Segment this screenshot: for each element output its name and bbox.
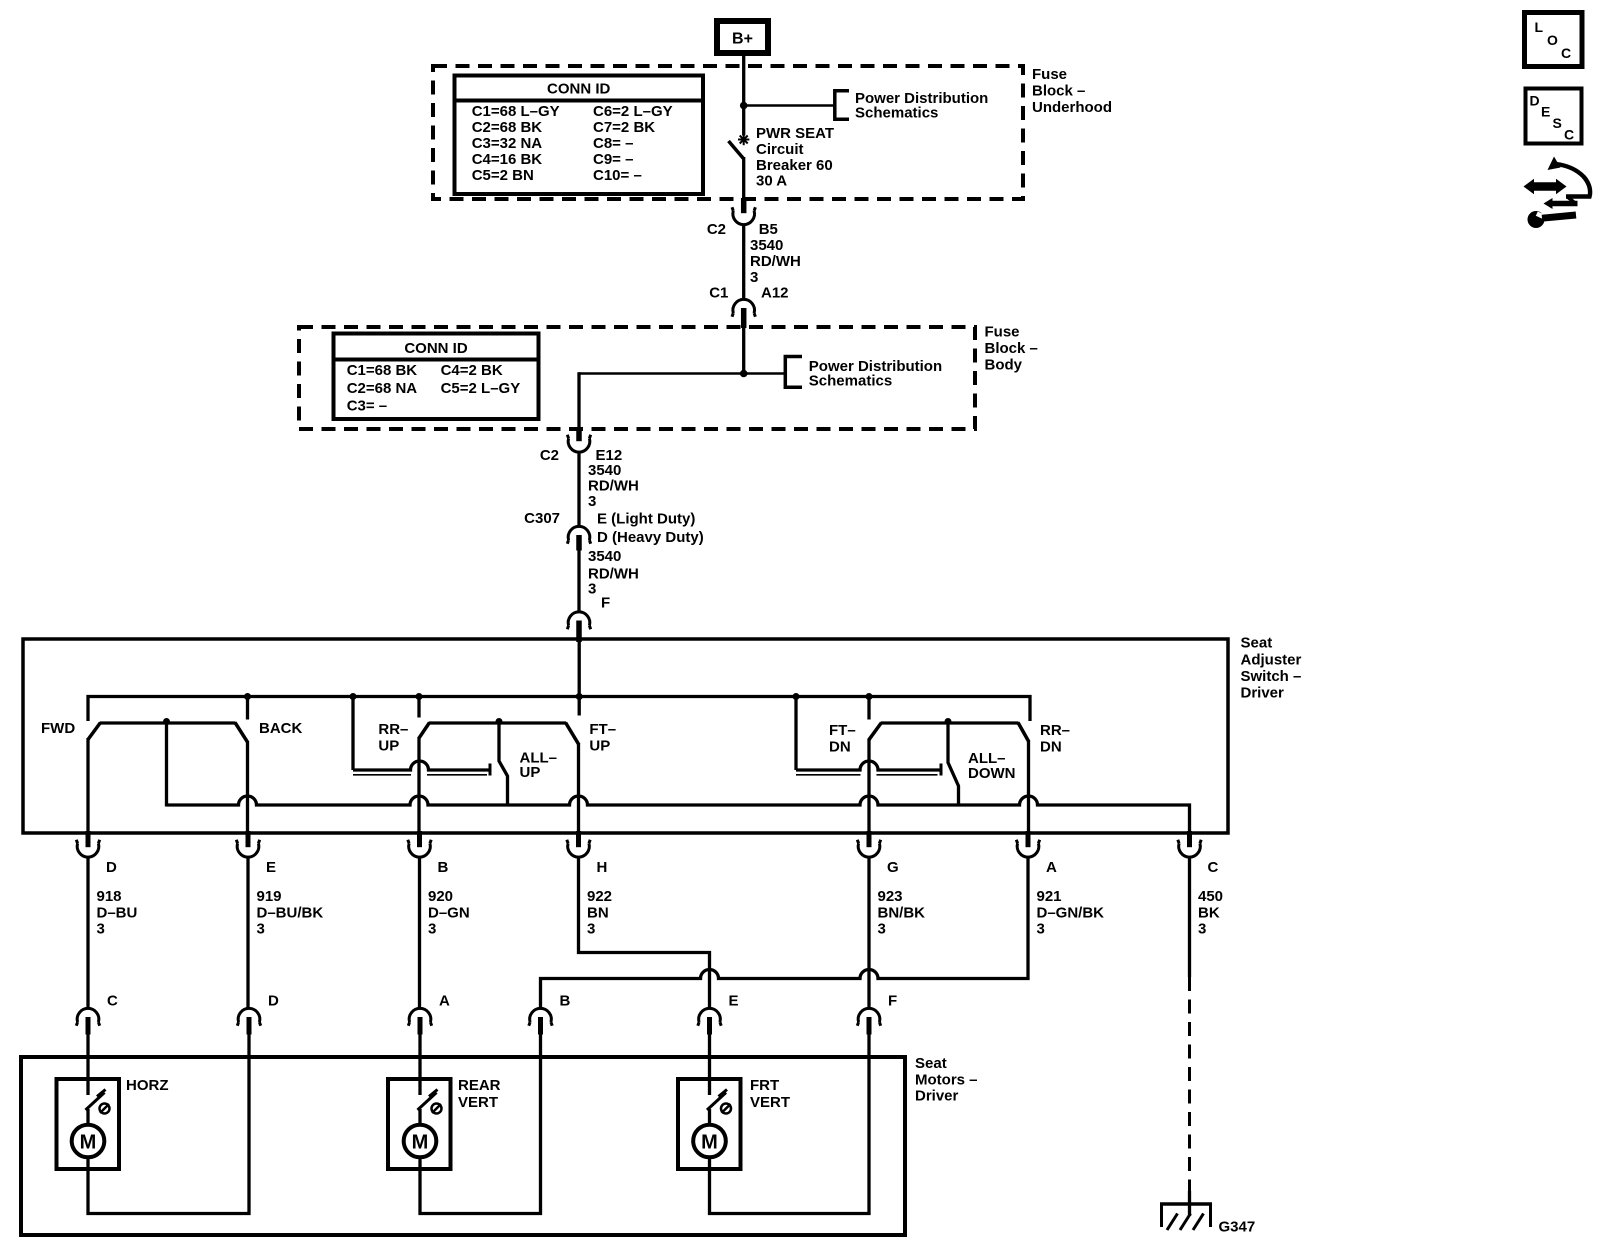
svg-text:3: 3	[257, 921, 265, 938]
svg-text:C5=2 L–GY: C5=2 L–GY	[441, 380, 521, 397]
wire connector F into motor box	[867, 1034, 870, 1059]
svg-text:FRT: FRT	[750, 1077, 779, 1094]
wire HORZ return	[87, 1056, 251, 1215]
wire REAR VERT return	[419, 1056, 543, 1215]
svg-text:G347: G347	[1219, 1219, 1256, 1236]
svg-text:RR–: RR–	[1040, 722, 1070, 739]
switch pole H	[577, 744, 580, 834]
svg-text:Block –: Block –	[1032, 83, 1085, 100]
wire C1 into body box	[742, 327, 745, 374]
svg-text:30 A: 30 A	[756, 173, 787, 190]
wire connector D into motor box	[247, 1034, 250, 1059]
label FWD	[41, 720, 75, 737]
wire pin C to G347	[1188, 1191, 1191, 1216]
wire connector E into motor box	[708, 1034, 711, 1059]
svg-text:Block –: Block –	[985, 340, 1038, 357]
switch stub FT-DN pole	[867, 697, 870, 720]
svg-text:C2=68 BK: C2=68 BK	[472, 119, 543, 136]
svg-text:UP: UP	[589, 738, 610, 755]
circuit breaker PWR SEAT 60 30A	[729, 107, 835, 190]
svg-text:S: S	[1553, 115, 1562, 131]
svg-text:3: 3	[587, 921, 595, 938]
node bus junction feed	[576, 693, 583, 700]
wire pin H jog to E motor	[579, 858, 710, 1009]
icon DESC box	[1526, 89, 1582, 144]
label connector F	[888, 993, 897, 1010]
wire connector C into motor box	[86, 1034, 89, 1059]
label pin A	[1046, 859, 1057, 876]
svg-text:Circuit: Circuit	[756, 141, 804, 158]
label pin C	[1208, 859, 1219, 876]
svg-text:Fuse: Fuse	[985, 324, 1020, 341]
switch rocker DOWN	[869, 723, 1029, 742]
svg-text:3: 3	[1037, 921, 1045, 938]
svg-text:PWR SEAT: PWR SEAT	[756, 125, 834, 142]
svg-text:C10= –: C10= –	[593, 167, 642, 184]
switch pole A	[1027, 741, 1030, 833]
wire label 921 D–GN/BK 3	[1037, 888, 1105, 938]
label Fuse Block - Underhood	[1032, 66, 1112, 116]
svg-text:3: 3	[588, 580, 596, 597]
label pin D	[106, 859, 117, 876]
svg-text:BN: BN	[587, 904, 609, 921]
switch contact line RR-UP	[353, 695, 490, 776]
switch stub RR-UP pole	[417, 697, 420, 718]
svg-text:M: M	[701, 1132, 718, 1154]
pin H connector at switch box	[567, 831, 590, 857]
connector A seat motors	[408, 1008, 431, 1034]
svg-text:Switch –: Switch –	[1241, 668, 1302, 685]
svg-text:E: E	[1541, 104, 1550, 120]
svg-text:C2=68 NA: C2=68 NA	[347, 380, 418, 397]
svg-text:A: A	[1046, 859, 1057, 876]
svg-text:O: O	[1547, 32, 1558, 48]
wire breaker to C2	[742, 157, 745, 201]
svg-text:C1=68 BK: C1=68 BK	[347, 362, 418, 379]
svg-text:E (Light Duty): E (Light Duty)	[597, 511, 695, 528]
wire pin B down	[418, 858, 421, 1009]
seat adjuster switch box	[23, 639, 1228, 833]
svg-text:RD/WH: RD/WH	[750, 253, 801, 270]
switch rocker UP	[419, 723, 579, 745]
connector F stub	[576, 621, 582, 643]
svg-text:D: D	[268, 993, 279, 1010]
svg-text:B+: B+	[732, 31, 753, 48]
svg-text:C: C	[107, 993, 118, 1010]
wire label 450 BK 3	[1198, 888, 1223, 938]
wire tap to power distribution bracket	[744, 104, 834, 107]
motor HORZ	[57, 1058, 169, 1215]
switch pole G	[867, 739, 870, 833]
power distribution schematics reference (body)	[785, 357, 942, 390]
switch rocker FWD-BACK	[88, 723, 248, 743]
power distribution schematics reference (underhood)	[835, 90, 989, 122]
wire B+ to tap junction	[742, 54, 745, 107]
svg-text:3540: 3540	[588, 548, 621, 565]
svg-text:Breaker 60: Breaker 60	[756, 157, 833, 174]
switch contact line FT-DN	[796, 695, 941, 776]
label connector A	[439, 993, 450, 1010]
label RR-UP	[378, 721, 408, 755]
svg-text:Body: Body	[985, 357, 1023, 374]
svg-text:C3= –: C3= –	[347, 398, 387, 415]
svg-text:D–BU/BK: D–BU/BK	[257, 904, 324, 921]
svg-text:D–BU: D–BU	[97, 904, 138, 921]
label Seat Motors - Driver	[915, 1055, 978, 1105]
wire label 919 D–BU/BK 3	[257, 888, 324, 938]
label Fuse Block - Body	[985, 324, 1038, 374]
label ALL-UP	[520, 750, 558, 782]
svg-text:919: 919	[257, 888, 282, 905]
pin C connector at switch box	[1178, 831, 1201, 857]
svg-text:D: D	[1530, 93, 1540, 109]
switch jog ALL-DOWN	[948, 722, 959, 807]
label connector B	[560, 993, 571, 1010]
switch pole E	[246, 742, 249, 834]
svg-text:D–GN: D–GN	[428, 904, 470, 921]
svg-text:Driver: Driver	[915, 1088, 959, 1105]
svg-text:BK: BK	[1198, 904, 1220, 921]
svg-text:Motors –: Motors –	[915, 1072, 978, 1089]
pin E connector at switch box	[236, 831, 259, 857]
connector C2 body stub	[576, 427, 582, 441]
switch jog ALL-UP	[499, 722, 508, 807]
svg-text:C1=68 L–GY: C1=68 L–GY	[472, 103, 560, 120]
svg-text:Seat: Seat	[1241, 635, 1273, 652]
svg-text:RR–: RR–	[378, 721, 408, 738]
battery terminal B+	[717, 21, 768, 53]
pin A connector at switch box	[1016, 831, 1039, 857]
svg-text:E: E	[729, 993, 739, 1010]
label Seat Adjuster Switch - Driver	[1241, 635, 1302, 702]
icon LOC box	[1525, 13, 1583, 67]
connector C2 body	[540, 435, 622, 464]
svg-text:A: A	[439, 993, 450, 1010]
svg-text:C7=2 BK: C7=2 BK	[593, 119, 655, 136]
label RR-DN	[1040, 722, 1070, 756]
svg-text:3540: 3540	[588, 462, 621, 479]
svg-text:3540: 3540	[750, 237, 783, 254]
svg-text:D–GN/BK: D–GN/BK	[1037, 904, 1105, 921]
svg-text:M: M	[80, 1132, 97, 1154]
svg-text:C4=16 BK: C4=16 BK	[472, 151, 543, 168]
svg-text:A12: A12	[761, 285, 789, 302]
pin D connector at switch box	[76, 831, 99, 857]
wire label 920 D–GN 3	[428, 888, 470, 938]
connector B seat motors	[529, 1008, 552, 1034]
node rocker UP	[496, 718, 503, 725]
svg-text:C: C	[1564, 127, 1574, 143]
svg-text:C2: C2	[707, 221, 726, 238]
wire tap to body C2	[579, 372, 745, 429]
wire 3540 RD/WH to F	[579, 548, 639, 612]
svg-text:C1: C1	[709, 285, 728, 302]
pin G connector at switch box	[857, 831, 880, 857]
svg-text:DN: DN	[1040, 739, 1062, 756]
svg-text:450: 450	[1198, 888, 1223, 905]
connector E seat motors	[698, 1008, 721, 1034]
svg-text:BACK: BACK	[259, 720, 302, 737]
svg-text:FT–: FT–	[589, 721, 616, 738]
svg-text:C9= –: C9= –	[593, 151, 633, 168]
node bus junction FT-DN pole	[866, 693, 873, 700]
node body tap junction	[740, 370, 748, 378]
connector C307 stub	[576, 535, 582, 551]
wire connector A into motor box	[418, 1034, 421, 1059]
label ALL-DOWN	[968, 750, 1016, 782]
svg-text:Schematics: Schematics	[809, 373, 892, 390]
svg-text:C3=32 NA: C3=32 NA	[472, 135, 543, 152]
label pin G	[887, 859, 899, 876]
connector C2 underhood	[707, 207, 778, 238]
svg-text:C5=2 BN: C5=2 BN	[472, 167, 534, 184]
wire 3540 RD/WH to C1	[744, 226, 801, 299]
connector F seat adjuster switch	[567, 612, 590, 629]
svg-text:Seat: Seat	[915, 1055, 947, 1072]
svg-text:F: F	[888, 993, 897, 1010]
svg-text:3: 3	[878, 921, 886, 938]
motor FRT VERT	[678, 1058, 790, 1215]
wire pin C dashed to ground	[1188, 977, 1191, 1193]
pin B connector at switch box	[408, 831, 431, 857]
motor REAR VERT	[388, 1058, 501, 1215]
svg-text:Adjuster: Adjuster	[1241, 651, 1302, 668]
svg-text:C2: C2	[540, 447, 559, 464]
svg-text:B: B	[438, 859, 449, 876]
connector D seat motors	[237, 1008, 260, 1034]
svg-text:920: 920	[428, 888, 453, 905]
label pin B	[438, 859, 449, 876]
svg-text:HORZ: HORZ	[126, 1077, 169, 1094]
svg-text:Fuse: Fuse	[1032, 66, 1067, 83]
svg-text:3: 3	[97, 921, 105, 938]
svg-text:D: D	[106, 859, 117, 876]
svg-text:RD/WH: RD/WH	[588, 478, 639, 495]
svg-text:UP: UP	[520, 764, 541, 781]
fuse block underhood dashed box	[433, 66, 1023, 199]
label FT-UP	[589, 721, 616, 755]
label connector C	[107, 993, 118, 1010]
svg-text:3: 3	[1198, 921, 1206, 938]
svg-text:BN/BK: BN/BK	[878, 904, 926, 921]
wire FRT VERT return	[708, 1056, 871, 1215]
svg-text:3: 3	[588, 493, 596, 510]
label BACK	[259, 720, 302, 737]
svg-text:REAR: REAR	[458, 1077, 501, 1094]
wire 3540 RD/WH to C307	[579, 454, 639, 526]
svg-text:CONN ID: CONN ID	[547, 81, 611, 98]
node rocker DOWN	[945, 718, 952, 725]
svg-text:CONN ID: CONN ID	[404, 340, 468, 357]
connector F seat motors	[857, 1008, 880, 1034]
svg-text:B5: B5	[759, 221, 778, 238]
svg-text:VERT: VERT	[458, 1094, 498, 1111]
svg-text:H: H	[597, 859, 608, 876]
connector C1 body stub	[741, 308, 747, 328]
svg-text:M: M	[412, 1132, 429, 1154]
svg-text:C307: C307	[524, 510, 560, 527]
wire label 923 BN/BK 3	[878, 888, 926, 938]
svg-text:B: B	[560, 993, 571, 1010]
connector C307	[524, 510, 704, 546]
icon arrows and wrench	[1524, 157, 1591, 229]
svg-text:UP: UP	[378, 738, 399, 755]
switch top bus	[88, 697, 1030, 722]
connector C2 underhood stub	[741, 198, 747, 213]
svg-text:C6=2 L–GY: C6=2 L–GY	[593, 103, 673, 120]
ground G347	[1160, 1203, 1255, 1236]
label pin H	[597, 859, 608, 876]
label pin E	[266, 859, 276, 876]
svg-text:E: E	[266, 859, 276, 876]
svg-text:Driver: Driver	[1241, 685, 1285, 702]
connector C seat motors	[76, 1008, 99, 1034]
wire pin G down	[867, 858, 870, 1009]
svg-text:DOWN: DOWN	[968, 765, 1016, 782]
wire pin C solid	[1188, 858, 1191, 978]
svg-text:921: 921	[1037, 888, 1062, 905]
switch stub BACK	[246, 697, 249, 720]
seat motors box	[21, 1057, 905, 1235]
node tap junction	[740, 102, 748, 110]
fuse block body dashed box	[299, 327, 975, 429]
connector C1 body	[709, 285, 788, 317]
label FT-DN	[829, 722, 856, 756]
wire connector B into motor box	[539, 1034, 542, 1059]
svg-text:C: C	[1561, 45, 1571, 61]
svg-text:3: 3	[750, 269, 758, 286]
svg-text:G: G	[887, 859, 899, 876]
connector ID table body	[334, 334, 539, 420]
wire tap to power distribution bracket body	[744, 372, 786, 375]
svg-text:C4=2 BK: C4=2 BK	[441, 362, 503, 379]
node bus junction BACK	[244, 693, 251, 700]
svg-text:FT–: FT–	[829, 722, 856, 739]
switch jog FWD-BACK to bus	[165, 722, 168, 807]
node bus junction FT-DN feed	[793, 693, 800, 700]
wire pin E down	[246, 858, 249, 1009]
svg-text:Schematics: Schematics	[855, 105, 938, 122]
svg-text:F: F	[601, 595, 610, 612]
node bus junction RR-UP pole	[416, 693, 423, 700]
wire pin A jog to B motor	[541, 858, 1029, 1009]
svg-text:918: 918	[97, 888, 122, 905]
svg-text:C: C	[1208, 859, 1219, 876]
wire label 918 D–BU 3	[97, 888, 138, 938]
svg-text:L: L	[1535, 19, 1544, 35]
wire label 922 BN 3	[587, 888, 612, 938]
label connector E	[729, 993, 739, 1010]
wire feed into switch	[578, 640, 581, 697]
svg-text:3: 3	[428, 921, 436, 938]
svg-text:DN: DN	[829, 739, 851, 756]
svg-text:923: 923	[878, 888, 903, 905]
switch pole B	[417, 738, 420, 834]
connector ID table underhood	[455, 76, 704, 195]
svg-text:FWD: FWD	[41, 720, 75, 737]
switch pole D	[86, 738, 89, 833]
node rocker FWD-BACK	[163, 718, 170, 725]
switch bottom bus	[167, 796, 1190, 833]
node bus junction RR-UP feed	[350, 693, 357, 700]
svg-text:VERT: VERT	[750, 1094, 790, 1111]
svg-text:D (Heavy Duty): D (Heavy Duty)	[597, 529, 704, 546]
switch stub FT-UP	[578, 697, 581, 716]
svg-text:C8= –: C8= –	[593, 135, 633, 152]
svg-text:Underhood: Underhood	[1032, 99, 1112, 116]
label connector D	[268, 993, 279, 1010]
wire pin D down	[86, 858, 89, 1009]
svg-text:922: 922	[587, 888, 612, 905]
